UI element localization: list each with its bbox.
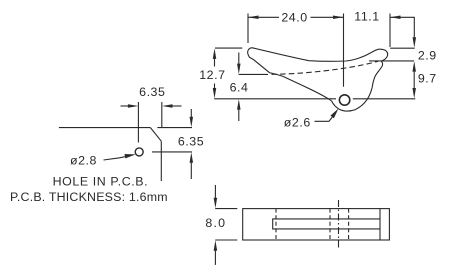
hidden line 3 (348, 209, 350, 240)
pcb top level extension right (157, 127, 192, 129)
arrow 6.35v down (190, 117, 194, 128)
front view slot bar (273, 219, 380, 229)
arrow 6.4 down (237, 64, 241, 75)
arrow 9.7 down (412, 88, 416, 99)
extension line nose right (389, 14, 391, 48)
arrow 12.7 down (213, 88, 217, 99)
svg-text:2.9: 2.9 (418, 48, 437, 62)
extension line hole centre vertical (137, 102, 139, 143)
nose-top level line (390, 47, 415, 49)
hole circle Ø2.6 (339, 95, 349, 105)
dashed-level line left (239, 73, 268, 75)
svg-text:P.C.B. THICKNESS: 1.6mm: P.C.B. THICKNESS: 1.6mm (10, 190, 168, 204)
dim 6.35v upper shaft (190, 109, 192, 118)
baseline right part (353, 98, 416, 100)
svg-text:HOLE IN P.C.B.: HOLE IN P.C.B. (53, 175, 149, 189)
arrow 24.0 left (248, 16, 259, 19)
dim 8.0 top extension (215, 208, 237, 210)
front view outer rectangle (243, 209, 390, 240)
svg-text:ø2.8: ø2.8 (70, 153, 97, 167)
dim 11.1 leader corner (390, 17, 414, 38)
top-left level line (215, 47, 242, 49)
arrow 8.0 up (214, 240, 218, 251)
dim 6.4 lower shaft (238, 109, 240, 122)
hidden line 2 (329, 209, 331, 240)
dim 24.0 line right segment (311, 16, 344, 18)
arrow 12.7 up (213, 48, 217, 59)
dim 6.35h right shaft (169, 105, 182, 107)
baseline (PCB top line, left part) (214, 98, 336, 100)
extension line pcb edge vertical (161, 102, 163, 128)
hole centre level line right (152, 151, 192, 153)
svg-text:8.0: 8.0 (205, 216, 226, 230)
dim 8.0 upper shaft (214, 185, 216, 199)
dim 8.0 bottom extension (215, 239, 237, 241)
svg-text:11.1: 11.1 (354, 10, 379, 24)
arrow 8.0 down (214, 198, 218, 209)
clip side-view outline (248, 48, 388, 111)
svg-text:12.7: 12.7 (199, 68, 225, 82)
extension line hole centre (343, 14, 345, 87)
dim 6.4 upper shaft (238, 53, 240, 65)
dashed-level line right (369, 60, 414, 62)
arrow 6.4 up (237, 99, 241, 110)
arrow 2.9 top (413, 37, 417, 48)
arrow 6.35h right-point (128, 104, 138, 108)
leader line Ø2.8 (104, 156, 129, 160)
dim 8.0 lower shaft (214, 250, 216, 265)
svg-text:6.35: 6.35 (139, 85, 165, 99)
svg-text:9.7: 9.7 (418, 72, 437, 86)
arrow 24.0 right (333, 16, 344, 19)
dim 9.7 line (413, 71, 415, 90)
hidden line 1 (275, 209, 277, 240)
svg-text:ø2.6: ø2.6 (284, 116, 311, 130)
PCB chamfer (150, 128, 161, 142)
arrow 11.1 right (390, 16, 401, 19)
svg-text:6.35: 6.35 (178, 135, 204, 149)
dim 12.7 upper segment (214, 58, 216, 67)
arrow 9.7 up (412, 61, 416, 72)
dim 6.35v lower shaft (190, 162, 192, 179)
arrow 6.35v up (190, 152, 194, 163)
dashed centre line in clip (272, 61, 379, 74)
arrow 6.35h left-point (162, 104, 173, 108)
svg-text:24.0: 24.0 (281, 11, 307, 25)
leader line Ø2.6 (315, 116, 334, 122)
PCB right edge (160, 141, 162, 181)
dim 6.35h left shaft (121, 105, 132, 107)
extension line left of 24.0 (247, 14, 249, 44)
svg-text:6.4: 6.4 (230, 81, 249, 95)
centreline front view (338, 200, 340, 250)
arrow leader 2.8 (125, 154, 136, 158)
front view right inner line (379, 209, 381, 240)
arrow leader 2.6 (330, 109, 338, 119)
dim 12.7 lower segment (214, 84, 216, 90)
PCB top edge (59, 127, 150, 129)
dim 24.0 line left segment (248, 16, 279, 18)
PCB hole Ø2.8 (135, 148, 143, 156)
